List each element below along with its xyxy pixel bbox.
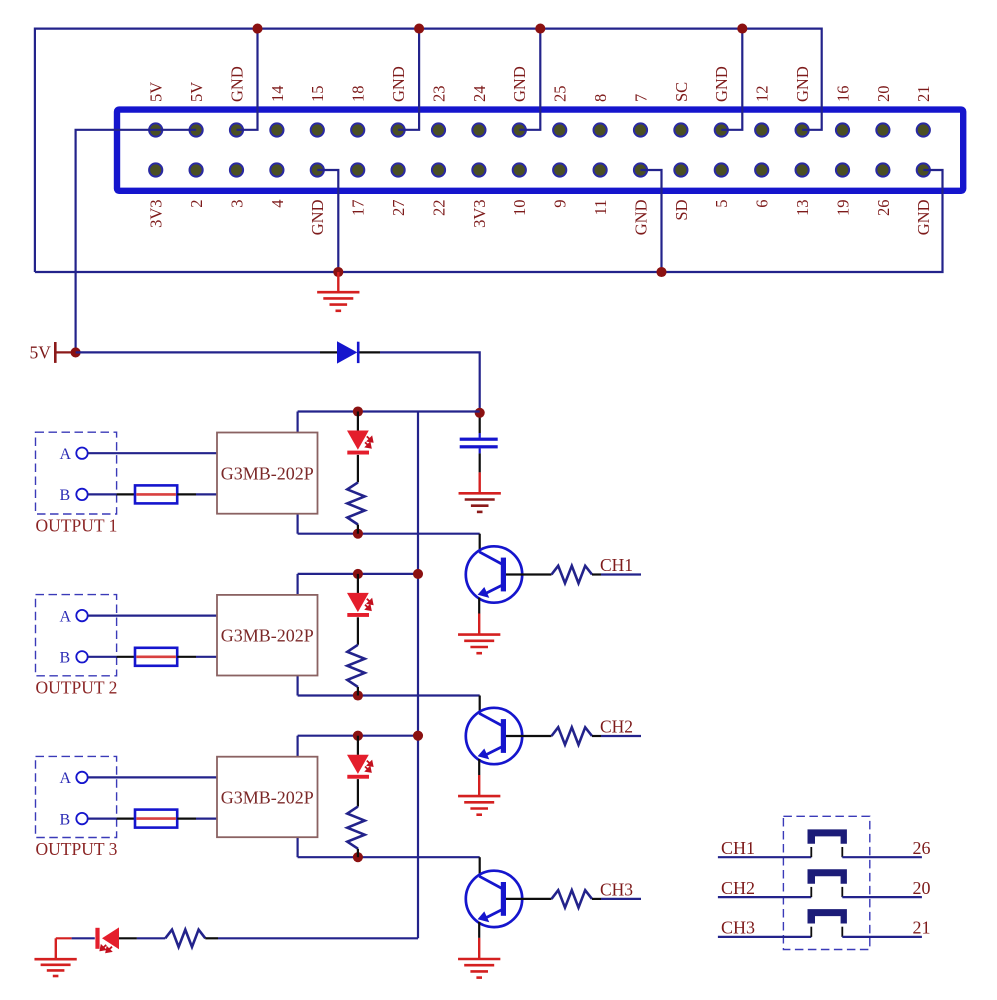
wire to power LED — [72, 937, 95, 939]
junction — [656, 267, 666, 277]
pin top 15 (col 5) — [311, 123, 324, 136]
junction — [413, 731, 423, 741]
svg-text:5V: 5V — [187, 82, 206, 102]
wire CH2 jumper left — [718, 896, 811, 898]
wire CH2 jumper right — [842, 896, 922, 898]
port 5V tick — [54, 342, 57, 363]
wire Q1 emitter — [478, 598, 480, 614]
wire relay2 bottom pin — [297, 675, 299, 696]
wire relay3 bottom pin — [297, 836, 299, 857]
wire CH3 — [592, 898, 601, 900]
pin top 5V (col 2) — [190, 123, 203, 136]
pin top 16 (col 18) — [836, 123, 849, 136]
pin top 25 (col 11) — [553, 123, 566, 136]
pin bottom SD (col 14) — [674, 163, 687, 176]
wire relay1 bottom pin — [297, 513, 299, 534]
wire Q2 emitter — [478, 759, 480, 775]
pin top 18 (col 6) — [351, 123, 364, 136]
wire GND stub pin13-bottom — [641, 170, 662, 272]
junction — [413, 569, 423, 579]
wire GND riser — [237, 29, 258, 130]
ground Q3 — [478, 938, 480, 959]
lead led1 anode — [357, 412, 359, 431]
svg-text:20: 20 — [874, 86, 893, 103]
svg-text:21: 21 — [913, 918, 931, 938]
svg-text:24: 24 — [470, 86, 489, 103]
lead power LED — [119, 937, 137, 939]
svg-text:A: A — [60, 608, 72, 625]
pin bottom 3V3 (col 9) — [472, 163, 485, 176]
wire B1 left — [88, 493, 117, 495]
wire CH3 jumper left — [718, 936, 811, 938]
svg-text:27: 27 — [389, 200, 408, 217]
svg-text:GND: GND — [227, 66, 246, 102]
wire Q2 base — [506, 735, 552, 737]
jumper CH2-20 pins — [810, 887, 812, 897]
svg-text:3V3: 3V3 — [470, 200, 489, 228]
svg-text:G3MB-202P: G3MB-202P — [221, 463, 314, 483]
wire B1 right — [177, 493, 196, 495]
junction — [333, 267, 343, 277]
svg-text:SD: SD — [672, 199, 691, 220]
pin top 5V (col 1) — [149, 123, 162, 136]
svg-text:CH1: CH1 — [600, 555, 633, 575]
ground cap — [479, 472, 481, 493]
wire CH3 jumper right — [842, 936, 922, 938]
svg-text:12: 12 — [753, 86, 772, 103]
lead cap top — [479, 413, 481, 433]
junction — [353, 852, 363, 862]
svg-text:22: 22 — [429, 200, 448, 217]
resistor Rb1 — [552, 566, 593, 583]
resistor R1 — [347, 482, 364, 524]
ground Q2 — [478, 775, 480, 796]
svg-text:B: B — [60, 650, 71, 667]
svg-text:2: 2 — [187, 200, 206, 208]
wire A3 — [88, 776, 217, 778]
wire CH1 jumper left — [718, 856, 811, 858]
svg-text:GND: GND — [914, 199, 933, 235]
svg-text:5V: 5V — [147, 82, 166, 102]
lead led1 cathode — [357, 455, 359, 483]
lead cap bottom — [479, 448, 481, 453]
transistor Q3 — [466, 871, 522, 927]
svg-text:23: 23 — [429, 86, 448, 103]
connector J1 40-pin GPIO header body — [117, 110, 963, 191]
junction — [414, 24, 424, 34]
ground power-led — [56, 937, 72, 939]
wire bottom GND bus — [35, 170, 943, 272]
svg-text:A: A — [60, 770, 72, 787]
junction — [353, 569, 363, 579]
resistor R4 power — [165, 930, 205, 947]
pin bottom 26 (col 19) — [876, 163, 889, 176]
capacitor C1 — [460, 438, 498, 441]
svg-text:A: A — [60, 446, 72, 463]
junction 5V — [71, 347, 81, 357]
svg-text:OUTPUT 3: OUTPUT 3 — [36, 839, 118, 859]
lead led3 anode — [357, 736, 359, 755]
lead R2 bottom — [357, 687, 359, 696]
svg-text:3V3: 3V3 — [147, 200, 166, 228]
transistor Q2 — [466, 708, 522, 764]
wire relay2 bottom bus — [298, 694, 480, 696]
jumper CH2-20 cap — [808, 869, 847, 883]
lead diode cathode — [360, 351, 381, 353]
LED D5 power — [95, 928, 99, 949]
lead R3 bottom — [357, 849, 359, 858]
svg-text:11: 11 — [591, 200, 610, 216]
wire Q1 collector — [479, 534, 481, 552]
pin top 23 (col 8) — [432, 123, 445, 136]
relay U1 G3MB-202P box — [217, 433, 318, 514]
wire relay3 bottom bus — [298, 856, 480, 858]
wire relay2 top bus — [298, 573, 418, 575]
svg-text:5V: 5V — [30, 342, 52, 362]
wire GND riser — [519, 29, 540, 130]
svg-text:OUTPUT 1: OUTPUT 1 — [36, 516, 118, 536]
svg-text:10: 10 — [510, 200, 529, 217]
pin bottom 6 (col 16) — [755, 163, 768, 176]
pin top GND (col 15) — [715, 123, 728, 136]
svg-text:7: 7 — [631, 94, 650, 102]
lead led2 cathode — [357, 617, 359, 645]
junction — [475, 408, 485, 418]
wire B2 right — [177, 656, 196, 658]
wire 5V rail left — [76, 351, 320, 353]
wire Q3 emitter — [478, 922, 480, 938]
pin top 20 (col 19) — [876, 123, 889, 136]
wire top GND bus — [35, 29, 822, 272]
svg-text:20: 20 — [913, 878, 931, 898]
wire relay1 top pin — [297, 412, 299, 434]
wire Q3 base — [506, 898, 552, 900]
relay U3 G3MB-202P box — [217, 757, 318, 838]
junction — [737, 24, 747, 34]
svg-text:OUTPUT 2: OUTPUT 2 — [36, 677, 118, 697]
transistor Q1 — [466, 546, 522, 602]
wire Q1 base — [506, 573, 552, 575]
pin bottom 13 (col 17) — [796, 163, 809, 176]
fuse F2 — [135, 648, 177, 666]
pin top GND (col 10) — [513, 123, 526, 136]
pin top 14 (col 4) — [270, 123, 283, 136]
lead R4 — [205, 937, 218, 939]
wire Q3 collector — [479, 857, 481, 876]
svg-text:19: 19 — [833, 200, 852, 217]
svg-text:16: 16 — [833, 86, 852, 103]
pin bottom 4 (col 4) — [270, 163, 283, 176]
pin bottom 5 (col 15) — [715, 163, 728, 176]
output3 dashed box — [36, 756, 117, 837]
svg-text:GND: GND — [631, 199, 650, 235]
pin bottom 3 (col 3) — [230, 163, 243, 176]
relay U2 G3MB-202P box — [217, 595, 318, 676]
port B3 circle — [76, 813, 87, 824]
pin bottom 22 (col 8) — [432, 163, 445, 176]
pin bottom 3V3 (col 1) — [149, 163, 162, 176]
svg-text:CH2: CH2 — [721, 878, 755, 898]
svg-text:B: B — [60, 811, 71, 828]
wire A1 — [88, 452, 217, 454]
pin bottom GND (col 20) — [917, 163, 930, 176]
wire power row — [218, 937, 418, 939]
output2 dashed box — [36, 595, 117, 676]
svg-text:G3MB-202P: G3MB-202P — [221, 787, 314, 807]
svg-text:GND: GND — [308, 199, 327, 235]
ground header — [337, 272, 339, 292]
pin bottom 2 (col 2) — [190, 163, 203, 176]
wire LED-resistor — [137, 937, 165, 939]
pin bottom 19 (col 18) — [836, 163, 849, 176]
svg-text:18: 18 — [349, 86, 368, 103]
pin top 7 (col 13) — [634, 123, 647, 136]
wire relay3 top pin — [297, 736, 299, 758]
svg-text:5: 5 — [712, 200, 731, 208]
pin bottom 10 (col 10) — [513, 163, 526, 176]
wire relay1 top bus — [298, 410, 480, 412]
wire GND riser — [398, 29, 419, 130]
LED D2 — [347, 593, 369, 612]
resistor R3 — [347, 807, 364, 849]
svg-text:26: 26 — [874, 200, 893, 217]
svg-text:9: 9 — [551, 200, 570, 208]
lead R1 bottom — [357, 525, 359, 534]
junction — [353, 690, 363, 700]
jumper CH3-21 cap — [808, 909, 847, 923]
jumper CH1-26 cap — [808, 829, 847, 843]
ground Q1 — [478, 614, 480, 635]
pin bottom 9 (col 11) — [553, 163, 566, 176]
resistor Rb2 — [552, 727, 593, 744]
wire B3 left — [88, 817, 117, 819]
wire A2 — [88, 614, 217, 616]
jumper dashed box — [783, 816, 869, 949]
wire CH2 — [592, 735, 601, 737]
wire relay3 top bus — [298, 735, 418, 737]
lead led3 cathode — [357, 779, 359, 807]
resistor Rb3 — [552, 890, 593, 907]
svg-text:3: 3 — [227, 200, 246, 208]
svg-text:26: 26 — [913, 838, 931, 858]
LED D1 — [347, 431, 369, 450]
pin top GND (col 3) — [230, 123, 243, 136]
svg-text:4: 4 — [268, 200, 287, 208]
junction — [353, 406, 363, 416]
wire relay2 top pin — [297, 574, 299, 596]
lead diode anode — [320, 351, 338, 353]
pin bottom 27 (col 7) — [392, 163, 405, 176]
pin bottom 11 (col 12) — [594, 163, 607, 176]
svg-text:GND: GND — [793, 66, 812, 102]
svg-text:15: 15 — [308, 86, 327, 103]
wire 5V rail right — [380, 352, 480, 412]
svg-text:CH2: CH2 — [600, 717, 633, 737]
pin top 21 (col 20) — [917, 123, 930, 136]
fuse F1 — [135, 485, 177, 503]
output1 dashed box — [36, 432, 117, 514]
port B1 circle — [76, 489, 87, 500]
pin top GND (col 7) — [392, 123, 405, 136]
svg-text:14: 14 — [268, 86, 287, 103]
pin top 8 (col 12) — [594, 123, 607, 136]
svg-text:B: B — [60, 487, 71, 504]
pin bottom GND (col 5) — [311, 163, 324, 176]
wire relay1 bottom bus — [298, 533, 480, 535]
svg-text:6: 6 — [753, 200, 772, 208]
junction — [353, 731, 363, 741]
pin bottom 17 (col 6) — [351, 163, 364, 176]
pin top 12 (col 16) — [755, 123, 768, 136]
wire CH1 — [592, 573, 601, 575]
svg-text:25: 25 — [551, 86, 570, 103]
wire B3 right — [177, 817, 196, 819]
pin top SC (col 14) — [674, 123, 687, 136]
fuse F3 — [135, 810, 177, 828]
port A2 circle — [76, 610, 87, 621]
diode D1 — [337, 341, 357, 363]
LED D3 — [347, 755, 369, 774]
junction — [252, 24, 262, 34]
port A3 circle — [76, 772, 87, 783]
svg-text:CH1: CH1 — [721, 838, 755, 858]
jumper CH3-21 pins — [810, 927, 812, 937]
wire 5V from pins 1-2 — [76, 130, 197, 353]
pin top GND (col 17) — [796, 123, 809, 136]
svg-text:CH3: CH3 — [600, 880, 633, 900]
svg-text:GND: GND — [712, 66, 731, 102]
svg-text:21: 21 — [914, 86, 933, 103]
port A1 circle — [76, 448, 87, 459]
svg-text:8: 8 — [591, 94, 610, 102]
svg-text:SC: SC — [672, 82, 691, 102]
wire GND riser — [721, 29, 742, 130]
resistor R2 — [347, 645, 364, 687]
wire main 5V vertical bus — [417, 412, 419, 939]
port B2 circle — [76, 651, 87, 662]
svg-text:13: 13 — [793, 200, 812, 217]
pin top 24 (col 9) — [472, 123, 485, 136]
junction — [535, 24, 545, 34]
svg-text:GND: GND — [510, 66, 529, 102]
svg-text:CH3: CH3 — [721, 918, 755, 938]
svg-text:G3MB-202P: G3MB-202P — [221, 626, 314, 646]
pin bottom GND (col 13) — [634, 163, 647, 176]
svg-text:GND: GND — [389, 66, 408, 102]
junction — [353, 529, 363, 539]
wire B2 left — [88, 656, 117, 658]
lead led2 anode — [357, 574, 359, 593]
wire GND stub pin5-bottom — [317, 170, 338, 272]
svg-text:17: 17 — [349, 200, 368, 217]
wire Q2 collector — [479, 696, 481, 714]
jumper CH1-26 pins — [810, 847, 812, 857]
wire CH1 jumper right — [842, 856, 922, 858]
